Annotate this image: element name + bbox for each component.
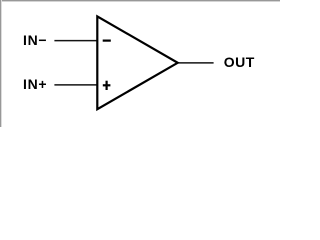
svg-text:OUT: OUT <box>224 54 255 70</box>
svg-text:IN+: IN+ <box>23 76 47 92</box>
svg-text:IN−: IN− <box>23 32 47 48</box>
